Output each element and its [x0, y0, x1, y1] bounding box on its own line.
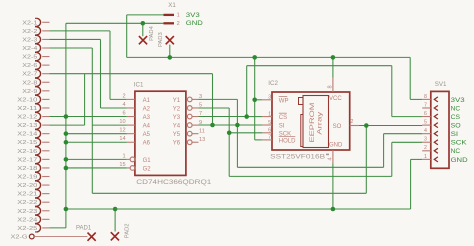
svg-text:G2: G2 [143, 166, 152, 172]
svg-text:EEPROM: EEPROM [309, 103, 316, 143]
svg-text:A1: A1 [143, 98, 151, 104]
wire IC2 GND drop to bus [332, 164, 334, 210]
wire 3V3 to IC2 VCC [332, 57, 334, 77]
X2 pin 17 socket arc [37, 155, 41, 163]
IC1 pin G2 stub [127, 167, 130, 169]
svg-text:12: 12 [119, 128, 125, 134]
wire CS top bus [247, 65, 392, 67]
wire into IC2 CS pin [247, 116, 263, 118]
connector SV1 box [431, 91, 449, 168]
SV1 pin 2 arrow [434, 148, 438, 153]
wire SO bus riser [365, 125, 367, 193]
svg-text:4: 4 [327, 157, 333, 160]
SV1 pin 1 stub [422, 158, 431, 160]
svg-text:SO: SO [333, 124, 342, 130]
IC1 pin A2 stub [127, 107, 135, 109]
X2 pin 21 socket arc [37, 190, 41, 198]
wire GND to X2-25 [50, 227, 66, 229]
svg-text:X2-4: X2-4 [22, 46, 38, 52]
svg-text:3V3: 3V3 [186, 12, 201, 19]
SV1 pin 6 stub [422, 116, 431, 118]
svg-text:VCC: VCC [329, 96, 342, 102]
svg-text:X2-24: X2-24 [17, 217, 38, 223]
X2 pin 14 stub [42, 133, 49, 135]
SV1 pin 4 stub [422, 133, 431, 135]
X2 pin 18 stub [42, 167, 49, 169]
svg-text:Y6: Y6 [173, 141, 181, 147]
svg-text:X2-18: X2-18 [17, 166, 38, 172]
svg-text:X2-2: X2-2 [22, 29, 37, 35]
wire GND to A5 [66, 133, 127, 135]
IC1 pin G1 stub [127, 158, 130, 160]
SV1 pin 3 arrow [434, 140, 438, 145]
wire PAD2 to GND bus [114, 209, 116, 232]
wire SO long bus [92, 192, 366, 194]
X2 pin 23 stub [42, 210, 49, 212]
svg-text:GND: GND [186, 20, 203, 27]
IC1 pin G2 inverter circle [130, 166, 135, 171]
wire CS to SV1 pin6 [391, 66, 393, 117]
X2-G wire to PAD1 [34, 236, 87, 238]
svg-text:X2-6: X2-6 [22, 63, 38, 69]
X2 pin 16 stub [42, 150, 49, 152]
pad PAD2 X mark [111, 232, 119, 240]
svg-text:2: 2 [122, 93, 125, 99]
svg-text:SO: SO [451, 123, 461, 130]
wire Y2 output [199, 107, 230, 109]
svg-text:X2-23: X2-23 [17, 209, 38, 215]
svg-text:PAD1: PAD1 [76, 225, 92, 231]
svg-text:X2-21: X2-21 [17, 192, 37, 198]
svg-text:3: 3 [424, 137, 427, 143]
svg-text:1: 1 [268, 111, 271, 117]
X2 pin 19 stub [42, 176, 49, 178]
IC1 pin Y2 stub [192, 107, 198, 109]
svg-text:5: 5 [424, 120, 427, 126]
svg-text:CS: CS [279, 115, 287, 121]
pad PAD3 X mark [166, 36, 174, 44]
wire GND bus up to SV1 pin1 [410, 159, 412, 209]
wire drop from X2-7 to Y4/SI row [212, 74, 214, 125]
svg-text:Y2: Y2 [173, 106, 181, 112]
X2 pin 1 socket arc [37, 18, 41, 26]
wire Y3 output to IC2 CS [199, 116, 247, 118]
svg-text:GND: GND [451, 157, 468, 164]
IC2 EEPROM array internal box [303, 96, 329, 148]
svg-text:A2: A2 [143, 106, 151, 112]
svg-text:A5: A5 [143, 132, 151, 138]
wire 3V3: X1 pin1 feed [127, 14, 164, 16]
X2 pin 9 stub [42, 90, 49, 92]
X2-G pin circle [29, 234, 34, 239]
svg-text:14: 14 [119, 136, 125, 142]
X2 pin 11 stub [42, 107, 49, 109]
pad PAD1 X mark [88, 233, 96, 241]
SV1 pin 5 arrow [434, 123, 438, 128]
X2 pin 15 stub [42, 141, 49, 143]
X2 pin 6 stub [42, 64, 49, 66]
X2 pin 6 socket arc [37, 61, 41, 69]
svg-text:X2-10: X2-10 [17, 97, 38, 103]
X2 pin 25 socket arc [37, 224, 41, 232]
X2 pin 18 socket arc [37, 164, 41, 172]
X2 pin 5 socket arc [37, 53, 41, 61]
wire IC2 SO to SV1 pin5 [359, 125, 422, 127]
X2 pin 11 socket arc [37, 104, 41, 112]
X2 pin 2 stub [42, 30, 49, 32]
wire Y4/SI row into IC2 SI pin [199, 124, 263, 126]
wire CS vertical from top bus [246, 66, 248, 117]
svg-text:NC: NC [451, 148, 461, 155]
SV1 pin 7 stub [422, 107, 431, 109]
X2 pin 4 socket arc [37, 44, 41, 52]
svg-text:SI: SI [279, 124, 285, 130]
svg-text:X2-1: X2-1 [22, 20, 37, 26]
wire SI staircase vertical [236, 99, 238, 167]
wire branch to A4 [92, 124, 127, 126]
X2 pin 13 stub [42, 124, 49, 126]
svg-text:SST25VF016B: SST25VF016B [270, 154, 325, 161]
svg-text:X2-3: X2-3 [22, 37, 38, 43]
wire SI lower bus [237, 166, 383, 168]
svg-text:8: 8 [424, 94, 427, 100]
svg-text:HOLD: HOLD [279, 139, 296, 145]
svg-text:X2-19: X2-19 [17, 175, 37, 181]
IC1 pin G1 inverter circle [130, 157, 135, 162]
svg-text:X2-G: X2-G [11, 235, 29, 241]
svg-text:CD74HC366QDRQ1: CD74HC366QDRQ1 [136, 179, 212, 186]
wire 3V3 horizontal bus [127, 56, 411, 58]
svg-text:5: 5 [268, 120, 271, 126]
IC1 pin Y1 inverter circle [187, 97, 192, 102]
svg-text:X2-17: X2-17 [17, 157, 37, 163]
X2 pin 7 socket arc [37, 70, 41, 78]
svg-text:X1: X1 [168, 2, 176, 9]
wire riser X2-13 to X2-7 [84, 74, 86, 125]
svg-text:PAD3: PAD3 [158, 32, 164, 47]
svg-text:Y3: Y3 [173, 115, 181, 121]
svg-text:A4: A4 [143, 124, 151, 130]
wire into WP pin [255, 99, 263, 101]
X2 pin 21 stub [42, 193, 49, 195]
svg-text:SCK: SCK [451, 140, 468, 147]
svg-text:X2-14: X2-14 [17, 132, 38, 138]
svg-text:NC: NC [451, 105, 461, 112]
X2 pin 10 stub [42, 98, 49, 100]
X2 pin 19 socket arc [37, 173, 41, 181]
X2 pin 4 stub [42, 47, 49, 49]
X2 pin 25 stub [42, 227, 49, 229]
pad PAD4 X mark [139, 36, 147, 44]
svg-text:SI: SI [451, 131, 459, 138]
X2 pin 24 stub [42, 218, 49, 220]
svg-text:SV1: SV1 [435, 81, 447, 88]
wire 3V3 vertical drop [126, 15, 128, 58]
wire X2-12 to A3 and GND [50, 116, 127, 118]
svg-text:7: 7 [424, 102, 427, 108]
svg-text:X2-25: X2-25 [17, 226, 38, 232]
wire 3V3 to IC2 WP/HOLD vertical [254, 57, 256, 139]
svg-text:PAD2: PAD2 [125, 223, 131, 238]
svg-text:X2-13: X2-13 [17, 123, 38, 129]
IC2 pin VCC(8) top stub [332, 78, 334, 93]
X2 pin 14 socket arc [37, 130, 41, 138]
X2 pin 2 socket arc [37, 27, 41, 35]
wire GND to G1 [66, 158, 127, 160]
wire into HOLD pin [255, 139, 263, 141]
X2 pin 8 stub [42, 81, 49, 83]
X1 pin 2 stub [164, 22, 175, 24]
SV1 pin 6 arrow [434, 114, 438, 119]
IC1 pin A1 stub [127, 98, 135, 100]
wire X2-2 to A1 [50, 30, 111, 32]
wire X2-3 to A2 [50, 38, 101, 40]
X2 pin 17 stub [42, 158, 49, 160]
IC1 pin Y5 stub [192, 133, 198, 135]
X2 pin 3 stub [42, 38, 49, 40]
svg-text:10: 10 [119, 119, 125, 125]
svg-text:WP: WP [279, 98, 289, 104]
svg-text:6: 6 [122, 111, 125, 117]
X2 pin 12 stub [42, 116, 49, 118]
svg-text:Y1: Y1 [173, 98, 181, 104]
X2 pin 15 socket arc [37, 138, 41, 146]
X2 pin 22 socket arc [37, 198, 41, 206]
wire into IC2 SCK pin [229, 132, 262, 134]
svg-text:3: 3 [268, 95, 271, 101]
X2 pin 5 stub [42, 56, 49, 58]
svg-text:4: 4 [424, 128, 427, 134]
wire Y1 output [199, 98, 238, 100]
svg-text:13: 13 [199, 137, 205, 143]
svg-text:G1: G1 [143, 158, 152, 164]
svg-text:1: 1 [122, 153, 125, 159]
wire 3V3 to SV1 pin8 [409, 57, 411, 99]
IC1 pin A5 stub [127, 133, 135, 135]
IC2 value superscript mark [326, 154, 329, 156]
X2 pin 13 socket arc [37, 121, 41, 129]
SV1 pin 4 arrow [434, 131, 438, 136]
svg-text:6: 6 [424, 111, 427, 117]
svg-text:X2-20: X2-20 [17, 183, 38, 189]
SV1 pin 3 stub [422, 141, 431, 143]
wire PAD4 drop [142, 23, 144, 36]
SV1 pin 8 arrow [434, 97, 438, 102]
SV1 pin 5 stub [422, 124, 431, 126]
svg-text:Y4: Y4 [173, 124, 181, 130]
IC1 pin A3 stub [127, 116, 135, 118]
wire GND to A6 [66, 141, 127, 143]
svg-text:11: 11 [199, 128, 205, 134]
flash IC2 box [272, 92, 350, 150]
wire GND bottom bus [66, 208, 411, 210]
X2 pin 3 socket arc [37, 35, 41, 43]
op IC1 box [135, 91, 186, 175]
svg-text:CS: CS [451, 114, 461, 121]
IC1 pin Y1 stub [192, 98, 198, 100]
IC2 pin SI stub [262, 124, 272, 126]
IC2 pin HOLD stub [262, 139, 272, 141]
svg-text:Array: Array [317, 111, 324, 135]
X2 pin 24 socket arc [37, 215, 41, 223]
X2 pin 12 socket arc [37, 113, 41, 121]
X2 pin 1 stub [42, 21, 49, 23]
svg-text:X2-22: X2-22 [17, 200, 37, 206]
IC2 pin CS stub [262, 116, 272, 118]
wire X2-7 horizontal [50, 73, 213, 75]
X2 pin 7 stub [42, 73, 49, 75]
X2 pin 16 socket arc [37, 147, 41, 155]
SV1 pin 8 stub [422, 98, 431, 100]
svg-text:X2-5: X2-5 [22, 55, 38, 61]
IC1 pin Y5 inverter circle [187, 131, 192, 136]
IC2 pin WP stub [262, 99, 272, 101]
wire GND: X1 pin2 feed [66, 22, 164, 24]
svg-text:2: 2 [350, 119, 353, 125]
IC2 pin SO stub [350, 125, 359, 127]
wire X2-13 to riser [50, 124, 85, 126]
IC2 internal select notch upper [299, 98, 304, 105]
X2 pin 22 stub [42, 201, 49, 203]
svg-text:2: 2 [424, 145, 427, 151]
IC2 internal select notch lower [301, 115, 303, 147]
svg-text:1: 1 [424, 154, 427, 160]
X2 pin 9 socket arc [37, 87, 41, 95]
wire X2-4 vertical [50, 47, 93, 49]
IC1 pin Y6 stub [192, 141, 198, 143]
svg-text:GND: GND [329, 142, 343, 148]
wire SCK staircase vertical [228, 108, 230, 176]
svg-text:8: 8 [327, 85, 333, 88]
X2 pin 8 socket arc [37, 78, 41, 86]
IC1 pin Y2 inverter circle [187, 106, 192, 111]
IC1 pin A6 stub [127, 141, 135, 143]
IC1 pin Y3 inverter circle [187, 114, 192, 119]
svg-text:2: 2 [177, 21, 180, 27]
svg-text:X2-8: X2-8 [22, 80, 38, 86]
wire GND main vertical [65, 23, 67, 228]
svg-text:IC2: IC2 [268, 80, 278, 87]
wire GND to G2 [66, 167, 127, 169]
svg-text:X2-11: X2-11 [17, 106, 37, 112]
svg-text:7: 7 [268, 135, 271, 141]
svg-text:X2-15: X2-15 [17, 140, 38, 146]
svg-text:3V3: 3V3 [451, 97, 466, 104]
wire SI to SV1 pin4 [383, 134, 385, 168]
IC2 pin SCK stub [262, 132, 272, 134]
wire PAD3 drop to 3V3 bus [169, 45, 171, 58]
IC1 pin A4 stub [127, 124, 135, 126]
SV1 pin 7 arrow [434, 105, 438, 110]
svg-text:X2-9: X2-9 [22, 89, 37, 95]
svg-text:6: 6 [268, 128, 271, 134]
wire SCK to SV1 pin3 [391, 142, 393, 176]
X1 pin 1 stub [164, 14, 175, 16]
IC1 pin Y4 inverter circle [187, 123, 192, 128]
IC1 pin Y4 stub [192, 124, 198, 126]
X2 pin 20 socket arc [37, 181, 41, 189]
svg-text:15: 15 [119, 162, 125, 168]
X2 pin 20 stub [42, 184, 49, 186]
wire SCK lower bus [229, 175, 392, 177]
svg-text:A6: A6 [143, 141, 151, 147]
IC2 pin GND(4) bottom stub [332, 150, 334, 164]
X2 pin 10 socket arc [37, 95, 41, 103]
svg-text:4: 4 [122, 102, 125, 108]
svg-text:Y5: Y5 [173, 132, 181, 138]
IC1 pin Y6 inverter circle [187, 140, 192, 145]
SV1 pin 2 stub [422, 150, 431, 152]
svg-text:A3: A3 [143, 115, 151, 121]
svg-text:1: 1 [177, 13, 180, 19]
svg-text:X2-7: X2-7 [22, 72, 37, 78]
svg-text:X2-16: X2-16 [17, 149, 38, 155]
IC1 pin Y3 stub [192, 116, 198, 118]
svg-text:PAD4: PAD4 [149, 25, 155, 40]
svg-text:X2-12: X2-12 [17, 115, 37, 121]
svg-text:IC1: IC1 [134, 82, 144, 89]
SV1 pin 1 arrow [434, 157, 438, 162]
X2 pin 23 socket arc [37, 207, 41, 215]
